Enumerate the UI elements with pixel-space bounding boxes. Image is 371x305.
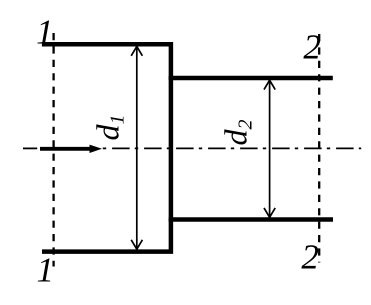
section line 1-1 (dashed) <box>52 33 54 267</box>
pipe wall: small pipe top <box>169 76 333 80</box>
svg-text:1: 1 <box>36 13 54 52</box>
pipe wall: small pipe bottom <box>169 217 333 222</box>
flow arrow <box>40 145 102 153</box>
dimension arrow d1 (double-headed vertical) <box>131 46 142 249</box>
centerline (dash-dot axis) <box>101 147 361 149</box>
svg-text:1: 1 <box>37 251 55 290</box>
section line 2-2 (dashed) <box>318 34 320 263</box>
pipe wall: large pipe (top, step face, bottom) <box>42 44 171 251</box>
svg-text:2: 2 <box>301 237 319 276</box>
svg-text:2: 2 <box>303 28 321 67</box>
centerline leading dash <box>23 147 37 149</box>
dimension arrow d2 (double-headed vertical) <box>264 80 275 217</box>
